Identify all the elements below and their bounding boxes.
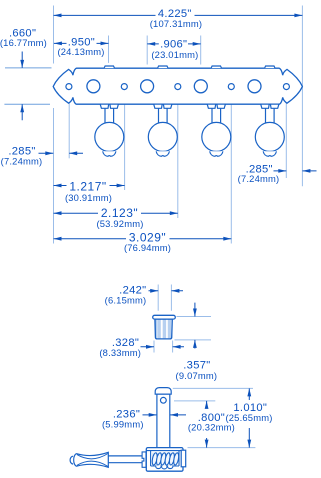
svg-text:(16.77mm): (16.77mm) <box>0 37 47 48</box>
extension line plate top edge (.660) <box>5 67 52 69</box>
bushing extension lines (.242) <box>158 285 171 311</box>
post tab 3 <box>211 66 221 68</box>
extension line left plate tip (lower, to 3.029) <box>53 108 55 244</box>
bushing left shade <box>155 319 157 338</box>
dimension 2.123 arrows <box>54 211 178 215</box>
dimension .285 right arrows <box>274 170 317 172</box>
dimension .285 left arrows <box>39 152 84 154</box>
gear housing inner frame <box>146 451 183 466</box>
gear housing outer <box>146 448 183 472</box>
small hole 4 <box>228 84 234 90</box>
dimension .660 arrows <box>21 52 23 121</box>
extension line small hole 1 (.285 left) <box>68 94 70 159</box>
string hole <box>160 397 166 403</box>
large hole 3 <box>194 80 207 93</box>
dimension .357 arrows <box>194 303 196 349</box>
large hole 2 <box>141 80 154 93</box>
small hole 5 <box>283 84 289 90</box>
svg-text:(30.91mm): (30.91mm) <box>65 192 112 203</box>
svg-text:(9.07mm): (9.07mm) <box>176 370 218 381</box>
dimension 1.010 arrows <box>248 388 250 447</box>
tuner 3 assembly <box>202 104 231 156</box>
tuner 2 assembly <box>148 104 177 156</box>
dimension 1.217 arrows <box>54 184 125 188</box>
housing right end plate <box>181 450 186 467</box>
worm gear coils <box>151 452 179 465</box>
svg-text:(5.99mm): (5.99mm) <box>102 418 144 429</box>
large hole 4 <box>248 80 261 93</box>
post tab 1 <box>104 66 114 68</box>
dimension .906 line <box>147 43 201 45</box>
extension line plate bottom edge (.660) <box>4 103 50 105</box>
svg-text:(24.13mm): (24.13mm) <box>57 46 104 57</box>
button shaft (side view) <box>108 456 142 463</box>
dimension 3.029 arrows <box>54 237 232 241</box>
extension line small hole 2 (1.217) <box>124 94 126 190</box>
dimension .906 arrows <box>147 42 201 46</box>
dimension .950 arrows <box>54 42 109 46</box>
housing left bracket <box>142 452 146 467</box>
extension line small hole 4 (3.029) <box>230 94 232 244</box>
svg-text:(76.94mm): (76.94mm) <box>124 242 171 253</box>
dimension .950 line <box>54 42 109 44</box>
small hole 3 <box>175 84 181 90</box>
extension line post 1 center (.950) <box>108 36 110 63</box>
small hole 2 <box>121 84 127 90</box>
tuner 4 assembly <box>255 104 284 156</box>
small hole 1 <box>66 84 72 90</box>
dimension 4.225 arrows <box>54 14 303 18</box>
extension line small hole 3 (2.123) <box>177 94 179 218</box>
dimension .236 arrows <box>143 414 187 416</box>
post tab 2 <box>158 66 168 68</box>
extension line large hole 2 (.906 left) <box>146 36 148 65</box>
tuner 1 assembly <box>95 104 124 156</box>
post tab 4 <box>265 66 275 68</box>
extension line left plate tip (top) <box>53 6 55 64</box>
svg-text:(20.32mm): (20.32mm) <box>188 422 235 433</box>
bushing body <box>155 319 172 339</box>
dimension 1.217 line <box>54 185 125 187</box>
svg-text:(25.65mm): (25.65mm) <box>225 412 272 423</box>
plate outline <box>53 68 302 104</box>
button spool (side view) <box>74 452 109 467</box>
bushing knurl hatch <box>157 319 171 338</box>
string post cap <box>155 388 171 395</box>
bushing flange <box>153 315 176 319</box>
svg-text:(8.33mm): (8.33mm) <box>99 347 141 358</box>
bushing right shade <box>171 319 172 338</box>
svg-text:(6.15mm): (6.15mm) <box>105 294 147 305</box>
bushing bottom extension (.328) <box>154 341 173 353</box>
button left nub <box>70 456 73 464</box>
extension line right plate tip <box>301 6 303 187</box>
bushing top extension (.357) <box>175 317 212 340</box>
dimension .800 arrows <box>206 401 208 448</box>
worm gear fill <box>152 453 177 466</box>
button inner contours <box>77 454 108 467</box>
dimension 4.225 line <box>54 14 303 16</box>
svg-text:(7.24mm): (7.24mm) <box>238 173 280 184</box>
dimension .242 arrows <box>149 290 184 292</box>
svg-text:(53.92mm): (53.92mm) <box>96 218 143 229</box>
svg-text:(107.31mm): (107.31mm) <box>150 18 203 29</box>
svg-text:(7.24mm): (7.24mm) <box>1 155 43 166</box>
dimension .328 arrows <box>141 346 185 348</box>
bushing body outline <box>155 319 172 339</box>
extension line large hole 3 (.906 right) <box>200 36 202 65</box>
svg-text:(23.01mm): (23.01mm) <box>151 49 198 60</box>
string post body <box>157 394 170 448</box>
gear feet <box>156 464 173 469</box>
fig3 extension lines (.800 / 1.010) <box>173 388 256 447</box>
large hole 1 <box>87 80 100 93</box>
dimension 2.123 line <box>54 212 178 214</box>
extension line small hole 5 (.285 right) <box>285 94 287 178</box>
dimension 3.029 line <box>54 238 232 240</box>
